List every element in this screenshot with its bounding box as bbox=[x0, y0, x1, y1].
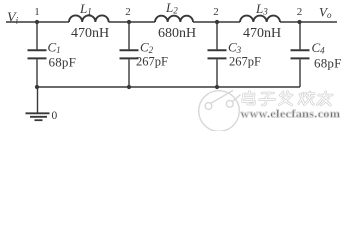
rail junction dot under C2 bbox=[127, 85, 131, 89]
rail junction dot left bbox=[35, 85, 39, 89]
node 1 junction dot bbox=[35, 20, 39, 24]
svg-text:68pF: 68pF bbox=[49, 55, 77, 70]
svg-text:0: 0 bbox=[52, 110, 58, 122]
node 2 junction dot (third) bbox=[297, 20, 301, 24]
svg-text:www.elecfans.com: www.elecfans.com bbox=[241, 107, 341, 121]
wire L2 to node 2 to L3 bbox=[193, 21, 240, 23]
svg-text:2: 2 bbox=[125, 6, 131, 18]
capacitor C3 plates bbox=[208, 49, 227, 51]
inductor L3 coil bbox=[240, 16, 280, 22]
svg-text:Vi: Vi bbox=[7, 11, 19, 26]
capacitor C2 branch wires bbox=[128, 22, 130, 49]
capacitor C4 branch wires bbox=[299, 22, 301, 49]
capacitor C1 plates bbox=[28, 49, 47, 51]
svg-text:C2: C2 bbox=[140, 40, 154, 56]
wire L1 to node 2 to L2 bbox=[109, 21, 156, 23]
ground symbol bars bbox=[26, 112, 50, 114]
watermark text 电子发烧友 (drawn strokes) bbox=[242, 92, 333, 106]
svg-text:470nH: 470nH bbox=[243, 26, 281, 41]
node 2 junction dot (second) bbox=[215, 20, 219, 24]
svg-text:L3: L3 bbox=[255, 1, 268, 17]
svg-text:L1: L1 bbox=[79, 1, 92, 17]
svg-text:680nH: 680nH bbox=[158, 26, 196, 41]
capacitor C3 branch wires bbox=[216, 22, 218, 49]
node 2 junction dot (first) bbox=[127, 20, 131, 24]
ground rail wire bbox=[37, 86, 300, 88]
svg-text:C4: C4 bbox=[312, 40, 326, 56]
svg-text:C3: C3 bbox=[228, 40, 242, 56]
watermark logo circle bbox=[199, 90, 241, 131]
ground stem wire bbox=[37, 87, 39, 113]
rail junction dot under C3 bbox=[215, 85, 219, 89]
svg-text:68pF: 68pF bbox=[314, 56, 342, 71]
wire Vi to node 1 and to L1 bbox=[6, 21, 69, 23]
svg-text:2: 2 bbox=[297, 6, 303, 18]
svg-text:470nH: 470nH bbox=[71, 26, 109, 41]
capacitor C2 plates bbox=[120, 49, 139, 51]
svg-text:1: 1 bbox=[34, 6, 40, 18]
capacitor C1 branch wires bbox=[36, 22, 38, 49]
svg-text:267pF: 267pF bbox=[136, 55, 168, 69]
svg-text:Vo: Vo bbox=[319, 5, 332, 21]
wire L3 to node 2 to Vo bbox=[280, 21, 337, 23]
svg-text:C1: C1 bbox=[48, 40, 61, 56]
svg-text:L2: L2 bbox=[165, 0, 178, 16]
capacitor C4 plates bbox=[291, 49, 310, 51]
svg-text:2: 2 bbox=[213, 6, 219, 18]
inductor L1 coil bbox=[69, 15, 109, 22]
svg-text:267pF: 267pF bbox=[229, 55, 261, 69]
inductor L2 coil bbox=[155, 16, 193, 22]
